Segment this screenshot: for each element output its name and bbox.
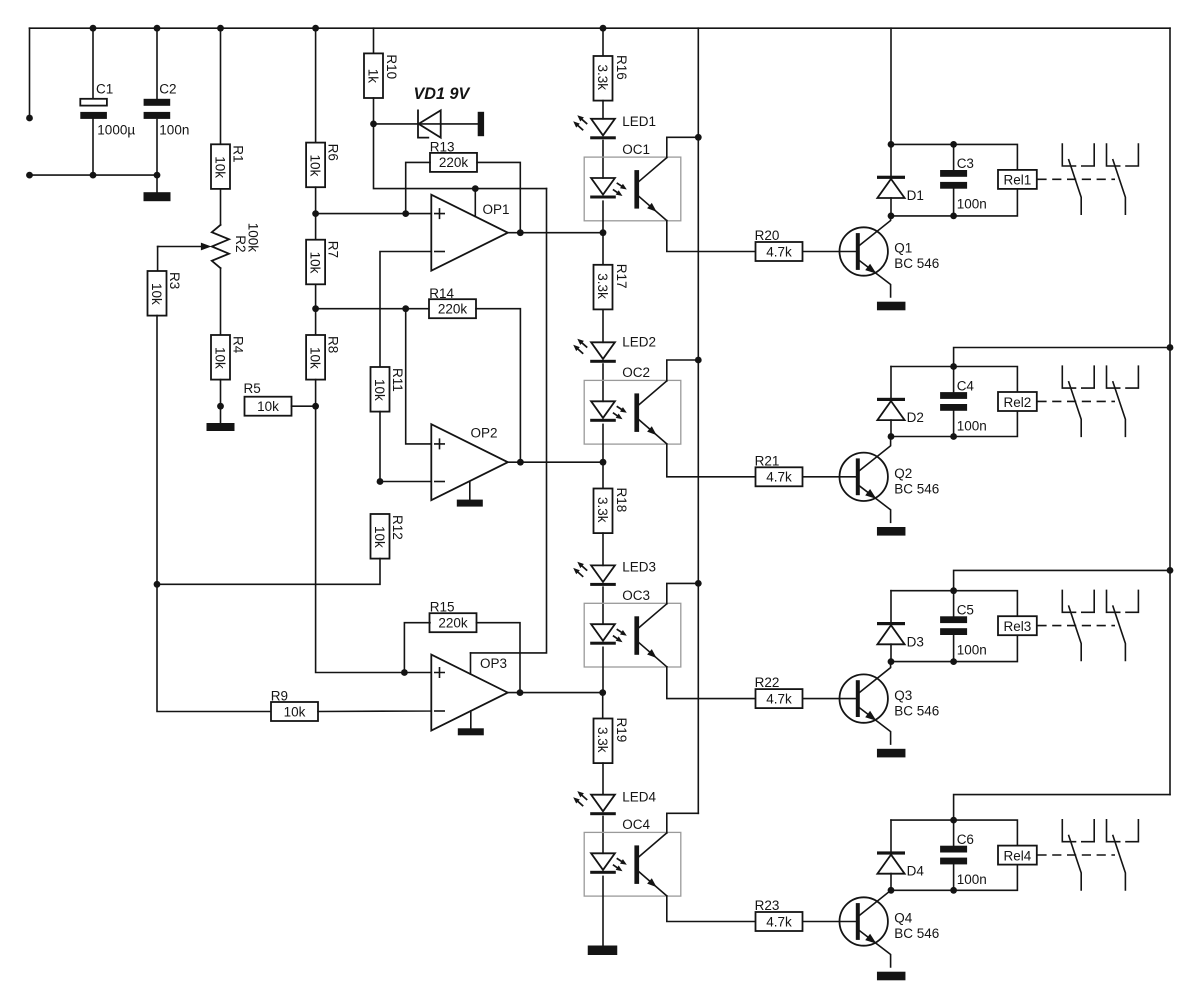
diode D1: [877, 176, 905, 179]
power bar terminal after VD1: [478, 112, 484, 136]
svg-text:R6: R6: [326, 144, 341, 161]
svg-text:100n: 100n: [957, 419, 987, 434]
wire: R18 to LED3: [602, 533, 604, 565]
diode D2: [877, 398, 905, 401]
node: junction R11/R12/OP2-: [377, 478, 384, 485]
wire: R15 right to OP3 output: [477, 623, 521, 693]
wire: C4 legs: [953, 367, 955, 437]
svg-text:10k: 10k: [257, 399, 279, 414]
svg-text:R5: R5: [244, 381, 261, 396]
wire: Q4 collector/emitter: [859, 890, 890, 915]
wire: R13 left to OP1 + node: [406, 162, 430, 213]
svg-text:100k: 100k: [246, 223, 261, 253]
optocoupler OC2: [584, 380, 681, 444]
wire: R6 to R7: [315, 187, 317, 240]
resistor R3: [148, 271, 167, 316]
wire: R4 to ground node: [220, 380, 222, 423]
node: junction rail/C1: [90, 25, 97, 32]
wire: chain OP1 node to R17: [602, 233, 604, 265]
relay coil Rel4: [998, 846, 1037, 865]
wire: C1 top leg: [92, 28, 94, 98]
resistor R23: [756, 912, 803, 931]
resistor R8: [306, 335, 325, 380]
wire: OC4 LED to chain ground: [602, 876, 604, 945]
wire: R22 to Q3 base: [803, 698, 856, 700]
svg-text:Rel4: Rel4: [1004, 848, 1032, 863]
svg-text:BC 546: BC 546: [894, 926, 939, 941]
svg-text:R21: R21: [755, 453, 780, 468]
wire: OP2 + input drop: [406, 309, 432, 444]
resistor R17: [594, 265, 613, 310]
node: junction top bar/C5: [950, 587, 957, 594]
diode D3: [877, 622, 905, 625]
node: junction R14/OP2+: [402, 305, 409, 312]
wire: rail to R10: [373, 28, 375, 53]
svg-text:C3: C3: [957, 156, 974, 171]
svg-text:LED2: LED2: [622, 334, 656, 349]
wire: relay block 4 top bar: [891, 820, 1017, 846]
capacitor C5: [940, 616, 967, 623]
wire: R2 bottom to R4: [220, 268, 222, 335]
svg-text:Rel3: Rel3: [1004, 619, 1032, 634]
node: junction bottom bar/D3: [888, 658, 895, 665]
svg-text:4.7k: 4.7k: [766, 691, 792, 706]
svg-text:R17: R17: [614, 264, 629, 289]
wire: relay block 1 top bar: [891, 144, 1017, 170]
wire: LED3 to OC3: [602, 587, 604, 624]
node: junction top bar/C3: [950, 141, 957, 148]
svg-text:R12: R12: [390, 515, 405, 540]
node: junction top bar/C4: [950, 363, 957, 370]
wire: Q1 collector/emitter: [859, 216, 890, 246]
relay contact Rel1a: [1062, 144, 1075, 166]
svg-text:10k: 10k: [372, 526, 387, 548]
svg-text:10k: 10k: [213, 347, 228, 369]
svg-text:100n: 100n: [957, 196, 987, 211]
node: junction bottom bar/C6: [950, 887, 957, 894]
node: junction bottom bar/D1: [888, 213, 895, 220]
wire: R20 to Q1 base: [803, 251, 856, 253]
svg-text:10k: 10k: [308, 347, 323, 369]
ground under Q2: [877, 527, 906, 536]
svg-text:D4: D4: [907, 864, 925, 879]
wire: D1 legs: [890, 144, 892, 216]
ground under Q1: [877, 302, 906, 311]
wire: R2 wiper to R3: [158, 247, 159, 272]
node: junction R10/VD1/Vref: [370, 121, 377, 128]
svg-text:3.3k: 3.3k: [595, 497, 610, 523]
wire: right +V rail: [1169, 28, 1171, 794]
optocoupler OC1: [584, 157, 681, 221]
transistor Q1: [840, 227, 888, 275]
wire: OP1 - input to R11: [380, 252, 431, 368]
wire: R9 to OP3 - input: [318, 710, 431, 713]
resistor R19: [594, 719, 613, 764]
wire: Q2 collector/emitter: [859, 437, 890, 471]
wire: R11 to OP2 - node: [379, 412, 381, 482]
node: junction block1 top/D1: [888, 141, 895, 148]
svg-text:3.3k: 3.3k: [595, 727, 610, 753]
relay contact Rel2b: [1107, 366, 1120, 388]
node: junction rail/R1: [217, 25, 224, 32]
wire: dashed link Rel2 to contacts: [1037, 400, 1115, 402]
wire: right rail tap to relay block 4: [954, 795, 1170, 821]
wire: collector rail x=698: [697, 28, 699, 813]
relay contact Rel4a: [1062, 820, 1075, 842]
ground under OP3: [458, 728, 484, 735]
resistor R18: [594, 489, 613, 534]
wire: D4 legs: [890, 820, 892, 890]
wire: R21 to Q2 base: [803, 476, 856, 478]
wire: OP1 + input row: [316, 213, 432, 215]
op-amp OP2: [431, 424, 508, 500]
wire: OC2 LED to OP2 out node: [602, 424, 604, 462]
relay contact Rel1b: [1107, 144, 1120, 166]
wire: R8 node down to OP3 + input: [316, 406, 432, 672]
node: junction R6/R7/OP1+: [312, 210, 319, 217]
svg-text:OC2: OC2: [622, 365, 650, 380]
wire: OC3 LED to OP3 out node: [602, 647, 604, 692]
ground under C2: [144, 192, 171, 201]
resistor R22: [756, 689, 803, 708]
svg-text:R23: R23: [755, 898, 780, 913]
wire: relay block 2 top bar: [891, 367, 1017, 393]
node: junction bottom bar/C5: [950, 658, 957, 665]
svg-text:BC 546: BC 546: [894, 256, 939, 271]
svg-text:VD1 9V: VD1 9V: [414, 85, 471, 103]
resistor R11: [371, 367, 390, 412]
svg-text:Q4: Q4: [894, 911, 913, 926]
svg-text:10k: 10k: [213, 156, 228, 178]
wire: chain OP2 node to R18: [602, 462, 604, 488]
wire: OP2 output row: [508, 461, 603, 463]
relay contact Rel4b: [1107, 820, 1120, 842]
wire: right rail tap to relay block 3: [954, 570, 1170, 590]
node: junction C1/bottom wire: [90, 172, 97, 179]
wire: OP1 V+ stub: [474, 189, 476, 217]
LED LED4: [591, 795, 615, 812]
wire: relay block 3 bottom bar: [891, 635, 1017, 661]
svg-text:R15: R15: [430, 600, 455, 615]
wire: D3 legs: [890, 591, 892, 662]
svg-text:C4: C4: [957, 378, 975, 393]
wire: OC1 LED to OP1 out node: [602, 201, 604, 233]
svg-text:3.3k: 3.3k: [595, 273, 610, 299]
svg-text:OC3: OC3: [622, 588, 650, 603]
wire: R14 row from R7/R8 node: [316, 308, 429, 310]
svg-text:4.7k: 4.7k: [766, 244, 792, 259]
relay contact Rel3b: [1107, 590, 1120, 612]
wire: top rail drop to relay block 1: [890, 28, 892, 144]
svg-text:D3: D3: [907, 634, 924, 649]
svg-text:OC1: OC1: [622, 142, 650, 157]
node: junction OP2 out/R18: [600, 459, 607, 466]
svg-text:LED3: LED3: [622, 559, 656, 574]
svg-text:R4: R4: [231, 336, 246, 354]
node: junction R13/OP1 out: [517, 229, 524, 236]
svg-text:R14: R14: [429, 286, 454, 301]
wire: R5 to R8 bottom node: [292, 405, 316, 407]
resistor R15: [430, 613, 477, 632]
node: junction rail/R16: [600, 25, 607, 32]
node: junction rail/OC1 collector: [695, 134, 702, 141]
svg-text:OP3: OP3: [480, 656, 507, 671]
optocoupler OC4: [584, 832, 681, 896]
wire: OP3 ground stub: [470, 711, 472, 728]
node: junction R4/R5/ground: [217, 403, 224, 410]
svg-text:LED4: LED4: [622, 789, 656, 804]
svg-text:10k: 10k: [372, 379, 387, 401]
svg-text:1k: 1k: [366, 69, 381, 84]
svg-text:220k: 220k: [439, 155, 469, 170]
resistor R14: [429, 299, 476, 318]
wire: rail to R1: [220, 28, 222, 144]
wire: R3 down the left column: [157, 316, 272, 712]
ground under Q3: [877, 749, 906, 758]
svg-text:C6: C6: [957, 832, 974, 847]
node: junction rail/OC3 collector: [695, 580, 702, 587]
resistor R20: [756, 242, 803, 261]
capacitor C6: [940, 846, 967, 853]
wire: R17 to LED2: [602, 309, 604, 342]
node: junction R15/OP3 out: [517, 689, 524, 696]
svg-text:10k: 10k: [308, 155, 323, 177]
svg-text:R11: R11: [390, 368, 405, 392]
svg-text:220k: 220k: [438, 616, 468, 631]
wire: rail to R6: [315, 28, 317, 142]
ground under OP2: [457, 500, 483, 507]
wire: R15 left to OP3 + node: [404, 623, 430, 673]
wire: R10 to VD1 node: [373, 98, 375, 124]
resistor R5: [245, 397, 292, 416]
resistor R16: [594, 56, 613, 101]
svg-text:100n: 100n: [957, 643, 987, 658]
wire: C6 legs: [953, 820, 955, 890]
wire: LED4 to OC4: [602, 816, 604, 853]
svg-text:OC4: OC4: [622, 817, 650, 832]
wire: C5 legs: [953, 591, 955, 662]
svg-text:4.7k: 4.7k: [766, 914, 792, 929]
wire: C2 top leg: [156, 28, 158, 98]
node: junction OP3 out/R19: [599, 689, 606, 696]
wire: dashed link Rel3 to contacts: [1037, 625, 1115, 627]
LED LED3: [591, 565, 615, 582]
LED LED2: [591, 342, 615, 359]
wire: C2 bottom leg to ground: [156, 120, 158, 193]
node: junction R14/OP2 out: [517, 459, 524, 466]
wire: rail to R16: [602, 28, 604, 56]
wire: top +V supply rail: [30, 27, 1171, 29]
transistor Q3: [840, 674, 888, 722]
resistor R21: [756, 467, 803, 486]
svg-text:100n: 100n: [957, 872, 987, 887]
node: junction rail/OC2 collector: [695, 357, 702, 364]
svg-text:D2: D2: [907, 410, 924, 425]
node: junction bottom bar/C4: [950, 433, 957, 440]
node: + input terminal: [26, 115, 33, 122]
wire: relay block 2 bottom bar: [891, 411, 1017, 437]
svg-text:R3: R3: [167, 272, 182, 289]
node: junction R7/R8/R14: [312, 305, 319, 312]
wire: D2 legs: [890, 367, 892, 437]
wire: OP3 V+ stub: [470, 653, 472, 674]
svg-text:C2: C2: [159, 81, 176, 96]
svg-text:C1: C1: [96, 81, 113, 96]
wire: LED1 to OC1: [602, 141, 604, 179]
svg-text:OP1: OP1: [483, 202, 510, 217]
transistor Q2: [840, 453, 888, 501]
transistor Q4: [840, 897, 888, 945]
wire: Vref node down to op-amp V+ row: [374, 124, 547, 189]
node: junction right rail tap 2: [1167, 344, 1174, 351]
resistor R6: [306, 143, 325, 188]
svg-text:R20: R20: [755, 228, 780, 243]
svg-text:R8: R8: [326, 336, 341, 353]
node: junction R3 column/R12: [154, 581, 161, 588]
relay contact Rel2a: [1062, 366, 1075, 388]
node: junction R15/OP3+: [401, 669, 408, 676]
svg-text:R13: R13: [430, 139, 455, 154]
wire: R12 bottom to left column: [157, 559, 380, 585]
wire: OP1 output row: [508, 232, 603, 234]
zener diode VD1: [418, 110, 428, 137]
ground under R4: [207, 423, 235, 431]
resistor R4: [211, 335, 230, 380]
svg-text:100n: 100n: [159, 122, 189, 137]
svg-text:1000µ: 1000µ: [97, 122, 135, 137]
wire: VD1 anode row: [374, 123, 478, 125]
svg-text:10k: 10k: [308, 252, 323, 274]
relay coil Rel2: [998, 392, 1037, 411]
svg-text:Q2: Q2: [894, 466, 912, 481]
svg-text:R19: R19: [614, 718, 629, 743]
wire: R7 to R8: [315, 284, 317, 335]
resistor R13: [430, 153, 477, 172]
diode D4: [877, 851, 905, 854]
node: junction top bar/C6: [950, 817, 957, 824]
wire: chain OP3 node to R19: [602, 693, 604, 719]
wire: OP3 output row: [508, 692, 603, 694]
svg-text:OP2: OP2: [471, 425, 498, 440]
svg-text:R22: R22: [755, 675, 780, 690]
node: - input terminal: [26, 172, 33, 179]
svg-text:R16: R16: [614, 55, 629, 80]
wire: R8 to R5 node: [315, 380, 317, 407]
resistor R9: [271, 702, 318, 721]
svg-text:Q3: Q3: [894, 688, 912, 703]
wire: R13 right to OP1 output: [477, 162, 520, 232]
capacitor C2: [144, 99, 171, 106]
relay coil Rel1: [998, 170, 1037, 189]
wire: R14 right to OP2 output: [476, 309, 520, 463]
node: junction C2/bottom wire: [154, 172, 161, 179]
node: junction R13/OP1+: [402, 210, 409, 217]
wire: dashed link Rel4 to contacts: [1037, 854, 1115, 856]
svg-text:4.7k: 4.7k: [766, 470, 792, 485]
wire: Q3 collector/emitter: [859, 662, 890, 693]
wire: R23 to Q4 base: [803, 921, 856, 923]
resistor R10: [364, 53, 383, 98]
wire: OP2 - input row: [380, 481, 431, 483]
wire: V+ rail down to OP3: [471, 189, 547, 653]
node: junction Vref/OP1 V+: [472, 185, 479, 192]
op-amp OP3: [431, 655, 508, 731]
node: junction rail/R6: [312, 25, 319, 32]
wire: relay block 1 bottom bar: [891, 189, 1017, 216]
svg-text:3.3k: 3.3k: [595, 65, 610, 91]
svg-text:220k: 220k: [438, 302, 468, 317]
wire: right rail tap to relay block 2: [954, 348, 1170, 367]
capacitor C4: [940, 392, 967, 399]
wire: R16 to LED1: [602, 101, 604, 119]
svg-text:BC 546: BC 546: [894, 703, 939, 718]
svg-text:10k: 10k: [149, 283, 164, 305]
wire: dashed link Rel1 to contacts: [1037, 178, 1115, 180]
wire: R19 to LED4: [602, 763, 604, 795]
node: junction rail/C2: [154, 25, 161, 32]
resistor R7: [306, 240, 325, 285]
potentiometer R2: [212, 225, 229, 268]
node: junction OP1 out/R17: [600, 229, 607, 236]
wire: C1 bottom leg: [92, 119, 94, 175]
svg-text:R9: R9: [271, 688, 288, 703]
node: junction right rail tap 3: [1167, 567, 1174, 574]
svg-text:R18: R18: [614, 488, 629, 513]
wire: left supply input drop: [29, 28, 31, 114]
svg-text:R10: R10: [384, 54, 399, 79]
svg-text:Q1: Q1: [894, 241, 912, 256]
wire: R1 to R2: [220, 189, 222, 225]
node: junction bottom bar/D4: [888, 887, 895, 894]
relay contact Rel3a: [1062, 590, 1075, 612]
node: junction R8/R5/OP3+: [312, 403, 319, 410]
LED LED1: [591, 119, 615, 136]
wire: bottom input to capacitors: [30, 174, 158, 176]
capacitor C1: [80, 99, 107, 106]
svg-text:C5: C5: [957, 603, 974, 618]
svg-text:BC 546: BC 546: [894, 482, 939, 497]
ground under Q4: [877, 972, 906, 981]
ground under LED chain: [588, 946, 618, 956]
node: junction bottom bar/D2: [888, 433, 895, 440]
svg-text:Rel1: Rel1: [1004, 173, 1032, 188]
svg-text:10k: 10k: [284, 704, 306, 719]
wire: C3 legs: [953, 144, 955, 216]
wire: relay block 4 bottom bar: [891, 865, 1017, 891]
resistor R12: [371, 514, 390, 559]
optocoupler OC3: [584, 603, 681, 667]
op-amp OP1: [431, 195, 508, 271]
wire: OP2 ground stub: [469, 481, 471, 499]
svg-text:D1: D1: [907, 188, 924, 203]
relay coil Rel3: [998, 616, 1037, 635]
wire: LED2 to OC2: [602, 364, 604, 401]
resistor R1: [211, 144, 230, 189]
wire: relay block 3 top bar: [891, 591, 1017, 617]
svg-text:R7: R7: [326, 241, 341, 258]
svg-text:Rel2: Rel2: [1004, 395, 1032, 410]
svg-text:R1: R1: [231, 145, 246, 162]
svg-text:LED1: LED1: [622, 114, 656, 129]
capacitor C3: [940, 170, 967, 177]
node: junction bottom bar/C3: [950, 213, 957, 220]
